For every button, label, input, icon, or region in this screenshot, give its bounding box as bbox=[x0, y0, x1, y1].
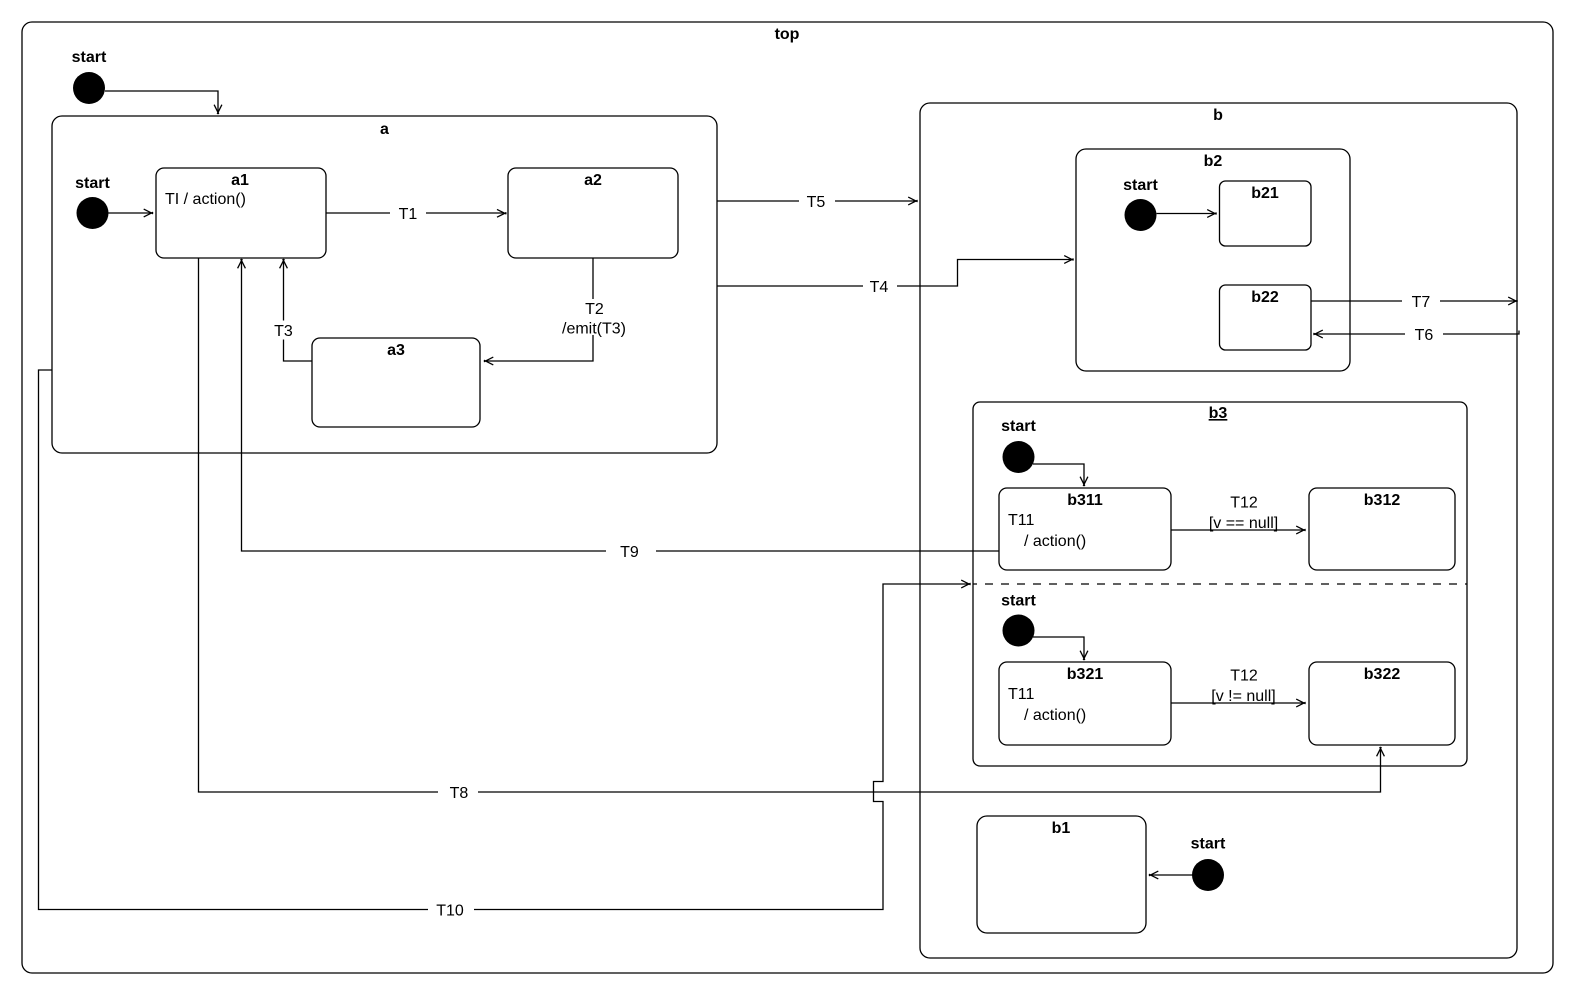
svg-text:T10: T10 bbox=[436, 903, 464, 920]
svg-text:start: start bbox=[1191, 836, 1226, 853]
svg-text:start: start bbox=[1001, 418, 1036, 435]
svg-text:a1: a1 bbox=[231, 172, 249, 189]
svg-text:top: top bbox=[775, 26, 800, 43]
svg-text:b2: b2 bbox=[1204, 153, 1223, 170]
svg-text:start: start bbox=[1123, 177, 1158, 194]
svg-text:b322: b322 bbox=[1364, 666, 1401, 683]
svg-text:T3: T3 bbox=[274, 323, 293, 340]
svg-text:T9: T9 bbox=[620, 544, 639, 561]
svg-text:start: start bbox=[75, 175, 110, 192]
svg-text:start: start bbox=[72, 49, 107, 66]
svg-text:/emit(T3): /emit(T3) bbox=[562, 321, 626, 338]
svg-text:T8: T8 bbox=[450, 785, 469, 802]
svg-text:T12: T12 bbox=[1230, 495, 1258, 512]
svg-text:a: a bbox=[380, 121, 389, 138]
svg-text:b1: b1 bbox=[1052, 820, 1071, 837]
svg-text:b: b bbox=[1213, 107, 1223, 124]
svg-text:b22: b22 bbox=[1251, 289, 1279, 306]
svg-text:a2: a2 bbox=[584, 172, 602, 189]
svg-text:/ action(): / action() bbox=[1024, 533, 1086, 550]
svg-text:T11: T11 bbox=[1008, 686, 1034, 703]
svg-text:T1: T1 bbox=[399, 206, 418, 223]
svg-text:/ action(): / action() bbox=[1024, 707, 1086, 724]
svg-text:a3: a3 bbox=[387, 342, 405, 359]
svg-text:T5: T5 bbox=[807, 194, 826, 211]
svg-text:TI / action(): TI / action() bbox=[165, 191, 246, 208]
svg-text:T12: T12 bbox=[1230, 668, 1258, 685]
svg-text:start: start bbox=[1001, 593, 1036, 610]
svg-text:T4: T4 bbox=[870, 279, 889, 296]
svg-text:T6: T6 bbox=[1415, 327, 1434, 344]
svg-text:b3: b3 bbox=[1209, 405, 1228, 422]
svg-text:[v == null]: [v == null] bbox=[1209, 515, 1278, 532]
svg-text:[v != null]: [v != null] bbox=[1211, 688, 1275, 705]
svg-text:b321: b321 bbox=[1067, 666, 1104, 683]
svg-text:T7: T7 bbox=[1412, 294, 1431, 311]
svg-text:T2: T2 bbox=[585, 301, 604, 318]
svg-text:T11: T11 bbox=[1008, 512, 1034, 529]
svg-text:b21: b21 bbox=[1251, 185, 1279, 202]
svg-text:b311: b311 bbox=[1067, 492, 1103, 509]
svg-text:b312: b312 bbox=[1364, 492, 1401, 509]
